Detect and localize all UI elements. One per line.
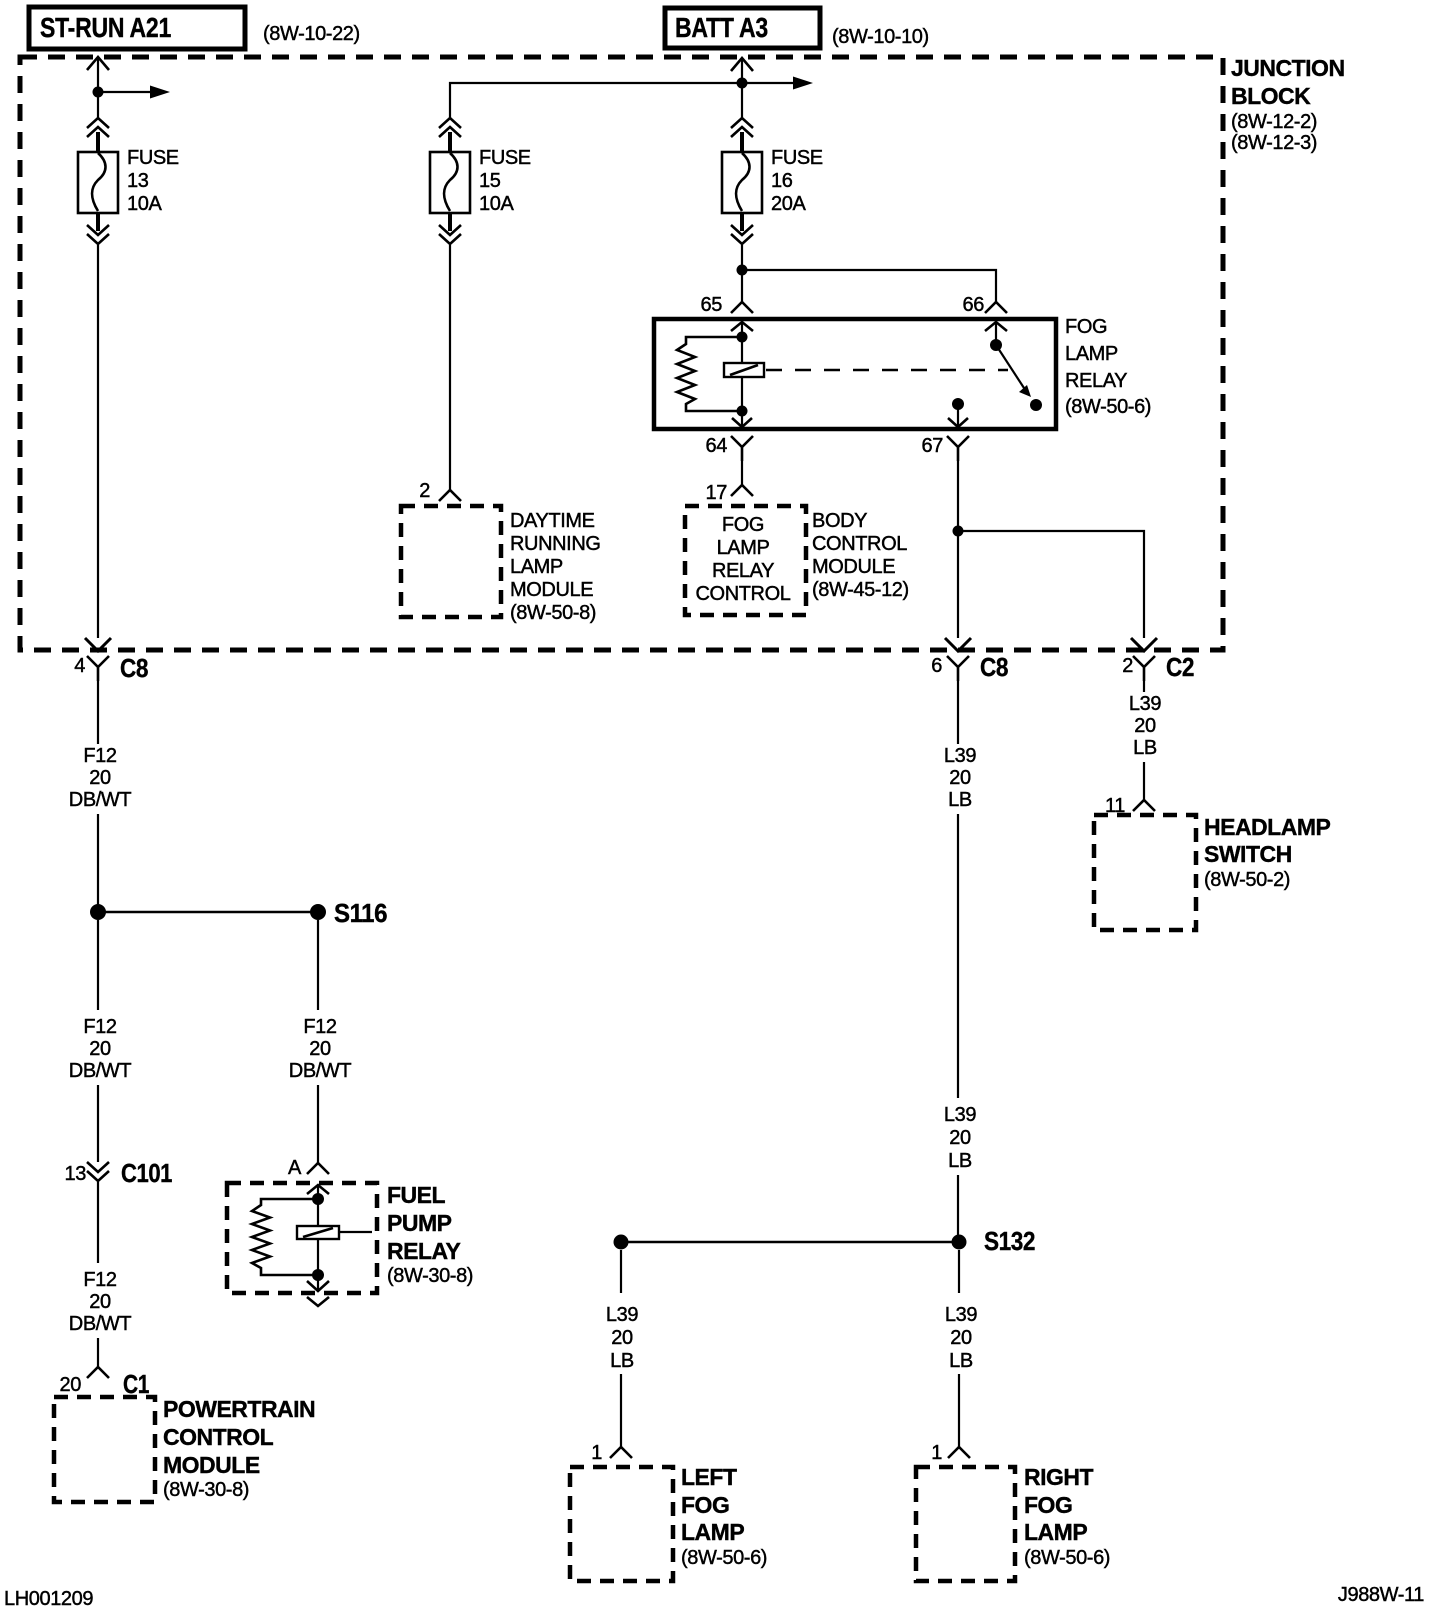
svg-text:LB: LB xyxy=(949,1350,973,1372)
wire down to right fog lamp pin 1 xyxy=(958,1374,960,1447)
fuel pump relay Q-FPR xyxy=(227,1183,377,1306)
wire arrow at C8 pin 4 exit xyxy=(85,638,111,651)
wire down to splice S116 xyxy=(97,814,99,905)
svg-text:20: 20 xyxy=(89,1291,111,1313)
fog lamp relay pin 64 symbol xyxy=(731,436,753,461)
svg-text:RIGHT: RIGHT xyxy=(1024,1464,1094,1490)
wire C101 down xyxy=(97,1182,99,1263)
fuse F13 xyxy=(78,152,118,213)
node ST-RUN A21 feed box xyxy=(29,7,245,49)
fuse 13 bottom terminal chevrons xyxy=(87,225,109,235)
wire S116 right branch down xyxy=(317,920,319,1010)
left fog lamp pin 1 symbol xyxy=(610,1447,632,1458)
wire to relay pin 65 xyxy=(741,270,743,302)
wire fuse 16 top lead xyxy=(740,132,744,153)
svg-text:(8W-10-10): (8W-10-10) xyxy=(832,26,929,48)
wire fuse 15 feed from BATT branch xyxy=(450,83,742,118)
svg-text:POWERTRAIN: POWERTRAIN xyxy=(163,1396,315,1422)
svg-text:BATT A3: BATT A3 xyxy=(675,12,768,43)
wire fuse 15 bottom lead xyxy=(448,212,452,231)
label HEADLAMP SWITCH xyxy=(1204,814,1330,891)
svg-text:F12: F12 xyxy=(303,1016,337,1038)
wire down to headlamp switch pin 11 xyxy=(1143,762,1145,800)
svg-text:CONTROL: CONTROL xyxy=(696,583,791,605)
svg-text:20: 20 xyxy=(950,1327,972,1349)
label wire L39 20 LB (left fog) xyxy=(606,1304,638,1372)
wire branch to relay pin 66 xyxy=(742,270,996,302)
svg-text:LAMP: LAMP xyxy=(1024,1519,1087,1545)
label wire F12 20 DB/WT (upper left) xyxy=(69,745,132,811)
svg-text:FUEL: FUEL xyxy=(387,1182,446,1208)
wire BATT entry arrow into junction block xyxy=(731,58,753,71)
connector C101 in-line chevrons xyxy=(87,1162,109,1172)
svg-text:L39: L39 xyxy=(944,745,976,767)
svg-text:(8W-45-12): (8W-45-12) xyxy=(812,579,909,601)
svg-text:HEADLAMP: HEADLAMP xyxy=(1204,814,1330,840)
node junction dot on ST-RUN feed xyxy=(93,87,104,98)
wire to C8 pin 6 xyxy=(957,531,959,638)
svg-text:20: 20 xyxy=(949,1127,971,1149)
svg-text:LB: LB xyxy=(610,1350,634,1372)
splice S132 right dot xyxy=(952,1235,967,1250)
svg-text:CONTROL: CONTROL xyxy=(163,1424,274,1450)
svg-text:64: 64 xyxy=(706,435,728,457)
wire C8 pin 6 down xyxy=(957,681,959,744)
svg-text:(8W-50-6): (8W-50-6) xyxy=(1024,1547,1110,1569)
svg-text:LB: LB xyxy=(948,1150,972,1172)
svg-text:1: 1 xyxy=(591,1442,602,1464)
svg-text:J988W-11: J988W-11 xyxy=(1338,1584,1424,1606)
label FUSE 15 10A xyxy=(479,147,531,215)
wire branch arrow to other circuits xyxy=(98,91,156,93)
connector C1 pin 20 symbol xyxy=(87,1367,109,1378)
svg-text:65: 65 xyxy=(701,294,723,316)
connector C2 pin 2 symbol xyxy=(1133,656,1155,681)
svg-text:13: 13 xyxy=(65,1163,87,1185)
svg-text:FUSE: FUSE xyxy=(771,147,823,169)
svg-text:(8W-12-2): (8W-12-2) xyxy=(1231,111,1317,133)
node BATT A3 feed box xyxy=(665,8,820,48)
svg-text:L39: L39 xyxy=(945,1304,977,1326)
label wire F12 20 DB/WT (S116 right) xyxy=(289,1016,352,1082)
svg-text:10A: 10A xyxy=(479,193,514,215)
svg-text:C101: C101 xyxy=(121,1158,172,1188)
label DAYTIME RUNNING LAMP MODULE xyxy=(510,510,601,624)
svg-text:(8W-50-8): (8W-50-8) xyxy=(510,602,596,624)
svg-text:20: 20 xyxy=(89,767,111,789)
svg-text:MODULE: MODULE xyxy=(510,579,593,601)
wire fuse 13 bottom lead xyxy=(96,212,100,231)
svg-text:F12: F12 xyxy=(83,1269,117,1291)
svg-text:C8: C8 xyxy=(980,652,1008,682)
wire into splice S132 xyxy=(957,1175,959,1235)
label wire L39 20 LB (upper right) xyxy=(944,745,976,811)
powertrain control module box xyxy=(54,1397,155,1502)
svg-text:DB/WT: DB/WT xyxy=(69,1060,132,1082)
wire S132 right branch down xyxy=(958,1250,960,1293)
svg-text:MODULE: MODULE xyxy=(163,1452,260,1478)
wire branch arrow from BATT feed xyxy=(742,82,799,84)
svg-text:ST-RUN A21: ST-RUN A21 xyxy=(40,12,171,43)
svg-text:LH001209: LH001209 xyxy=(4,1588,93,1610)
svg-text:DB/WT: DB/WT xyxy=(69,1313,132,1335)
wire down to fuse 16 terminal xyxy=(741,83,743,118)
svg-text:20: 20 xyxy=(1134,715,1156,737)
label wire F12 20 DB/WT (left mid) xyxy=(69,1016,132,1082)
wire branch to C2 pin 2 xyxy=(958,531,1144,638)
svg-text:L39: L39 xyxy=(606,1304,638,1326)
svg-text:CONTROL: CONTROL xyxy=(812,533,907,555)
svg-text:LEFT: LEFT xyxy=(681,1464,737,1490)
svg-text:10A: 10A xyxy=(127,193,162,215)
daytime running lamp module pin 2 symbol xyxy=(439,490,461,501)
label RIGHT FOG LAMP xyxy=(1024,1464,1110,1569)
node junction dot on BATT feed xyxy=(737,78,748,89)
daytime running lamp module box xyxy=(401,506,501,617)
svg-text:2: 2 xyxy=(1122,655,1133,677)
svg-text:RELAY: RELAY xyxy=(712,560,774,582)
label LEFT FOG LAMP xyxy=(681,1464,767,1569)
wire splice S132 bridge xyxy=(621,1241,959,1244)
svg-text:LAMP: LAMP xyxy=(510,556,563,578)
headlamp switch pin 11 symbol xyxy=(1133,800,1155,811)
fuse F15 xyxy=(430,152,470,213)
wire down to connector C101 xyxy=(97,1085,99,1162)
right fog lamp box xyxy=(916,1467,1015,1581)
wire ST-RUN stem xyxy=(97,59,99,92)
fog lamp relay control box (in BCM) xyxy=(685,506,806,615)
svg-text:C1: C1 xyxy=(123,1369,149,1399)
label wire L39 20 LB (right fog) xyxy=(945,1304,977,1372)
svg-text:L39: L39 xyxy=(944,1104,976,1126)
svg-text:LAMP: LAMP xyxy=(1065,343,1118,365)
svg-text:BODY: BODY xyxy=(812,510,867,532)
svg-text:1: 1 xyxy=(931,1442,942,1464)
wire fuse 13 to C8 pin 4 xyxy=(97,245,99,638)
label FOG LAMP RELAY xyxy=(1065,316,1151,418)
fog lamp relay pin 67 symbol xyxy=(947,436,969,461)
svg-text:6: 6 xyxy=(931,655,942,677)
svg-text:20: 20 xyxy=(309,1038,331,1060)
svg-text:RELAY: RELAY xyxy=(387,1238,460,1264)
svg-text:F12: F12 xyxy=(83,745,117,767)
label FUSE 13 10A xyxy=(127,147,179,215)
svg-text:C8: C8 xyxy=(120,653,148,683)
junction block dashed border xyxy=(20,57,1223,650)
svg-text:FUSE: FUSE xyxy=(127,147,179,169)
svg-text:(8W-50-6): (8W-50-6) xyxy=(1065,396,1151,418)
svg-text:20: 20 xyxy=(611,1327,633,1349)
svg-text:JUNCTION: JUNCTION xyxy=(1231,55,1345,81)
label wire F12 20 DB/WT (lower left) xyxy=(69,1269,132,1335)
svg-text:RELAY: RELAY xyxy=(1065,370,1127,392)
fuse 16 top terminal chevrons xyxy=(731,118,753,128)
svg-text:(8W-10-22): (8W-10-22) xyxy=(263,23,360,45)
svg-text:F12: F12 xyxy=(83,1016,117,1038)
fog lamp relay pin 65 symbol xyxy=(731,302,753,313)
svg-text:66: 66 xyxy=(963,294,985,316)
wire arrow at C2 pin 2 exit xyxy=(1131,638,1157,651)
fuse 13 top terminal chevrons xyxy=(87,118,109,128)
wire BATT stem xyxy=(741,60,743,83)
svg-text:20A: 20A xyxy=(771,193,806,215)
svg-text:S116: S116 xyxy=(334,898,387,928)
wire down to left fog lamp pin 1 xyxy=(620,1374,622,1447)
svg-text:(8W-50-2): (8W-50-2) xyxy=(1204,869,1290,891)
label FOG LAMP RELAY CONTROL xyxy=(696,514,791,605)
svg-text:FOG: FOG xyxy=(681,1492,729,1518)
label BODY CONTROL MODULE xyxy=(812,510,909,601)
svg-text:(8W-30-8): (8W-30-8) xyxy=(163,1479,249,1501)
wire long run down to S132 xyxy=(957,814,959,1098)
svg-text:FOG: FOG xyxy=(722,514,764,536)
wire splice S116 bridge xyxy=(98,911,318,914)
connector C8 pin 6 symbol xyxy=(947,656,969,681)
svg-text:DB/WT: DB/WT xyxy=(289,1060,352,1082)
label FUSE 16 20A xyxy=(771,147,823,215)
label FUEL PUMP RELAY xyxy=(387,1182,473,1287)
fog lamp relay pin 66 symbol xyxy=(985,302,1007,313)
svg-text:LB: LB xyxy=(1133,737,1157,759)
connector C8 pin 4 symbol xyxy=(87,656,109,681)
wire arrow at C8 pin 6 exit xyxy=(945,638,971,651)
fuse 16 bottom terminal chevrons xyxy=(731,225,753,235)
svg-text:FOG: FOG xyxy=(1065,316,1107,338)
svg-text:(8W-12-3): (8W-12-3) xyxy=(1231,132,1317,154)
wire fuse 16 to relay feed node xyxy=(741,245,743,270)
svg-text:FOG: FOG xyxy=(1024,1492,1072,1518)
svg-text:FUSE: FUSE xyxy=(479,147,531,169)
svg-text:MODULE: MODULE xyxy=(812,556,895,578)
svg-text:13: 13 xyxy=(127,170,149,192)
svg-text:A: A xyxy=(288,1157,302,1179)
wire S116 left branch down xyxy=(97,920,99,1010)
splice S132 left dot xyxy=(614,1235,629,1250)
fuse 15 bottom terminal chevrons xyxy=(439,225,461,235)
svg-text:4: 4 xyxy=(74,655,85,677)
splice S116 left dot xyxy=(90,904,106,920)
headlamp switch box xyxy=(1094,815,1196,930)
svg-text:LB: LB xyxy=(948,789,972,811)
junction block label xyxy=(1231,55,1345,154)
wire relay pin 67 down xyxy=(957,461,959,531)
svg-text:RUNNING: RUNNING xyxy=(510,533,601,555)
wire relay pin 64 to BCM pin 17 xyxy=(741,461,743,485)
wire down to fuel pump relay pin A xyxy=(317,1085,319,1163)
svg-text:2: 2 xyxy=(419,480,430,502)
wire S132 left branch down xyxy=(620,1250,622,1293)
fuse 15 top terminal chevrons xyxy=(439,118,461,128)
svg-text:PUMP: PUMP xyxy=(387,1210,452,1236)
svg-text:20: 20 xyxy=(89,1038,111,1060)
svg-text:16: 16 xyxy=(771,170,793,192)
svg-text:DAYTIME: DAYTIME xyxy=(510,510,595,532)
wire fuse 15 top lead xyxy=(448,132,452,153)
svg-text:S132: S132 xyxy=(984,1226,1035,1256)
wire ST-RUN entry arrow into junction block xyxy=(87,57,109,70)
svg-text:(8W-50-6): (8W-50-6) xyxy=(681,1547,767,1569)
wire fuse 15 to daytime running lamp module xyxy=(449,245,451,490)
svg-text:(8W-30-8): (8W-30-8) xyxy=(387,1265,473,1287)
left fog lamp box xyxy=(570,1467,673,1581)
svg-text:SWITCH: SWITCH xyxy=(1204,841,1292,867)
svg-text:15: 15 xyxy=(479,170,501,192)
svg-text:LAMP: LAMP xyxy=(681,1519,744,1545)
svg-text:20: 20 xyxy=(949,767,971,789)
svg-text:L39: L39 xyxy=(1129,693,1161,715)
wire down to fuse 13 terminal xyxy=(97,92,99,118)
svg-text:20: 20 xyxy=(60,1374,82,1396)
label wire L39 20 LB (above S132) xyxy=(944,1104,976,1172)
wire C2 down xyxy=(1143,681,1145,692)
fuse F16 xyxy=(722,152,762,213)
fuel pump relay pin A symbol xyxy=(307,1163,329,1174)
body control module pin 17 symbol xyxy=(731,485,753,496)
wire fuse 13 top lead xyxy=(96,132,100,153)
wire down to PCM pin 20 xyxy=(97,1338,99,1367)
right fog lamp pin 1 symbol xyxy=(948,1447,970,1458)
node junction dot on pin 67 wire xyxy=(953,526,964,537)
relay K-FOG fog lamp relay xyxy=(654,319,1056,429)
svg-text:LAMP: LAMP xyxy=(717,537,770,559)
splice S116 right dot xyxy=(310,904,326,920)
wire C8 pin 4 down xyxy=(97,681,99,744)
svg-text:C2: C2 xyxy=(1166,652,1194,682)
wire fuse 16 bottom lead xyxy=(740,212,744,231)
label wire L39 20 LB (C2 branch) xyxy=(1129,693,1161,759)
svg-text:BLOCK: BLOCK xyxy=(1231,83,1311,109)
svg-text:17: 17 xyxy=(706,482,728,504)
label POWERTRAIN CONTROL MODULE xyxy=(163,1396,315,1501)
svg-text:67: 67 xyxy=(922,435,944,457)
svg-text:DB/WT: DB/WT xyxy=(69,789,132,811)
node junction dot above fog lamp relay xyxy=(737,265,748,276)
